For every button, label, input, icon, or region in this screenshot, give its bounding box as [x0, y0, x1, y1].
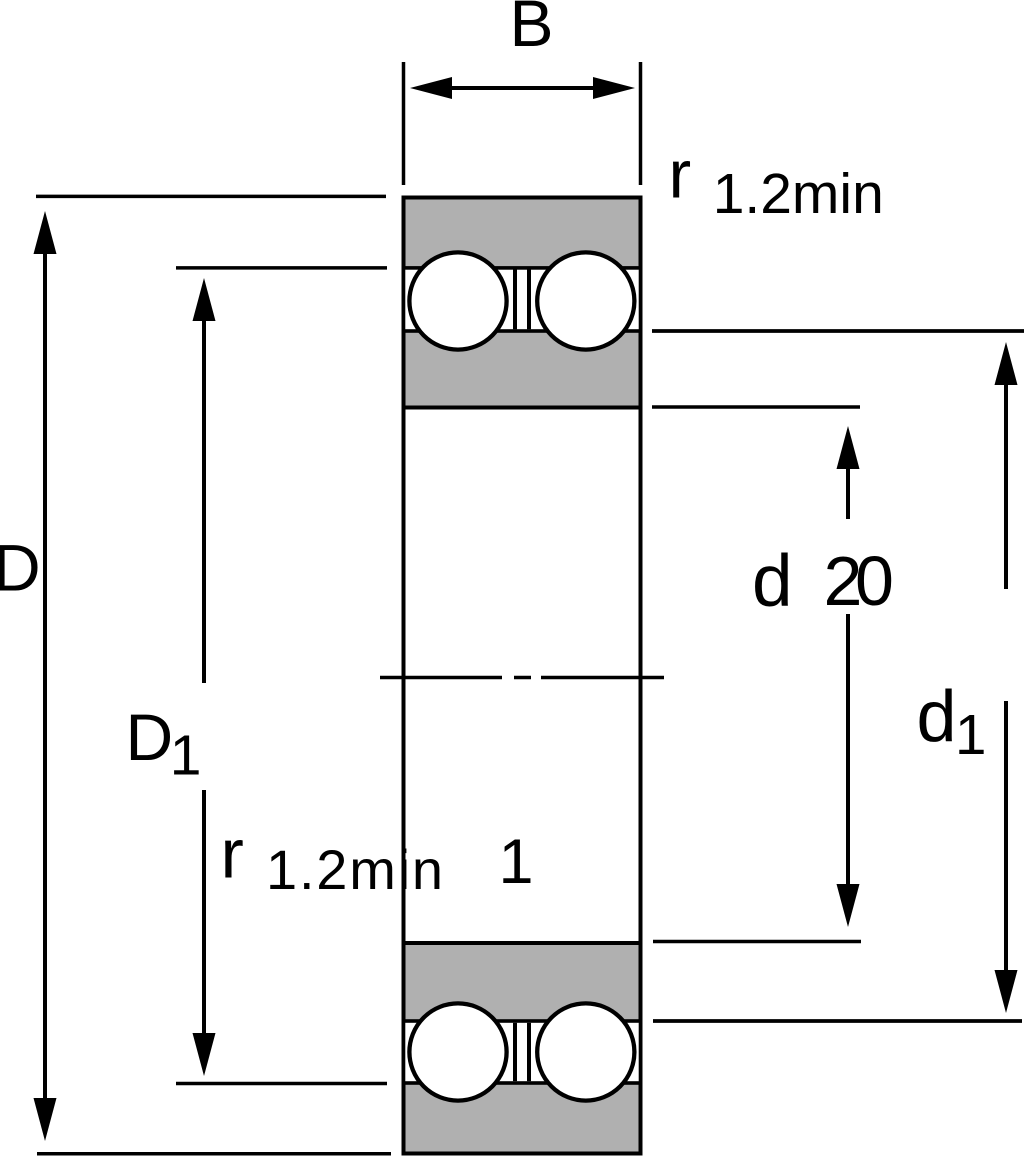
svg-text:B: B: [510, 0, 554, 60]
svg-text:D: D: [126, 700, 174, 774]
svg-text:1: 1: [170, 724, 202, 788]
svg-text:r: r: [669, 137, 692, 213]
svg-text:r: r: [221, 815, 244, 893]
svg-text:1: 1: [955, 703, 986, 766]
svg-text:1: 1: [499, 827, 534, 897]
svg-text:1.2min: 1.2min: [713, 162, 884, 226]
svg-text:d: d: [917, 677, 957, 757]
svg-text:D: D: [0, 531, 41, 605]
svg-text:0: 0: [855, 542, 894, 620]
svg-text:1.2min: 1.2min: [266, 838, 445, 901]
svg-text:d: d: [752, 541, 793, 622]
